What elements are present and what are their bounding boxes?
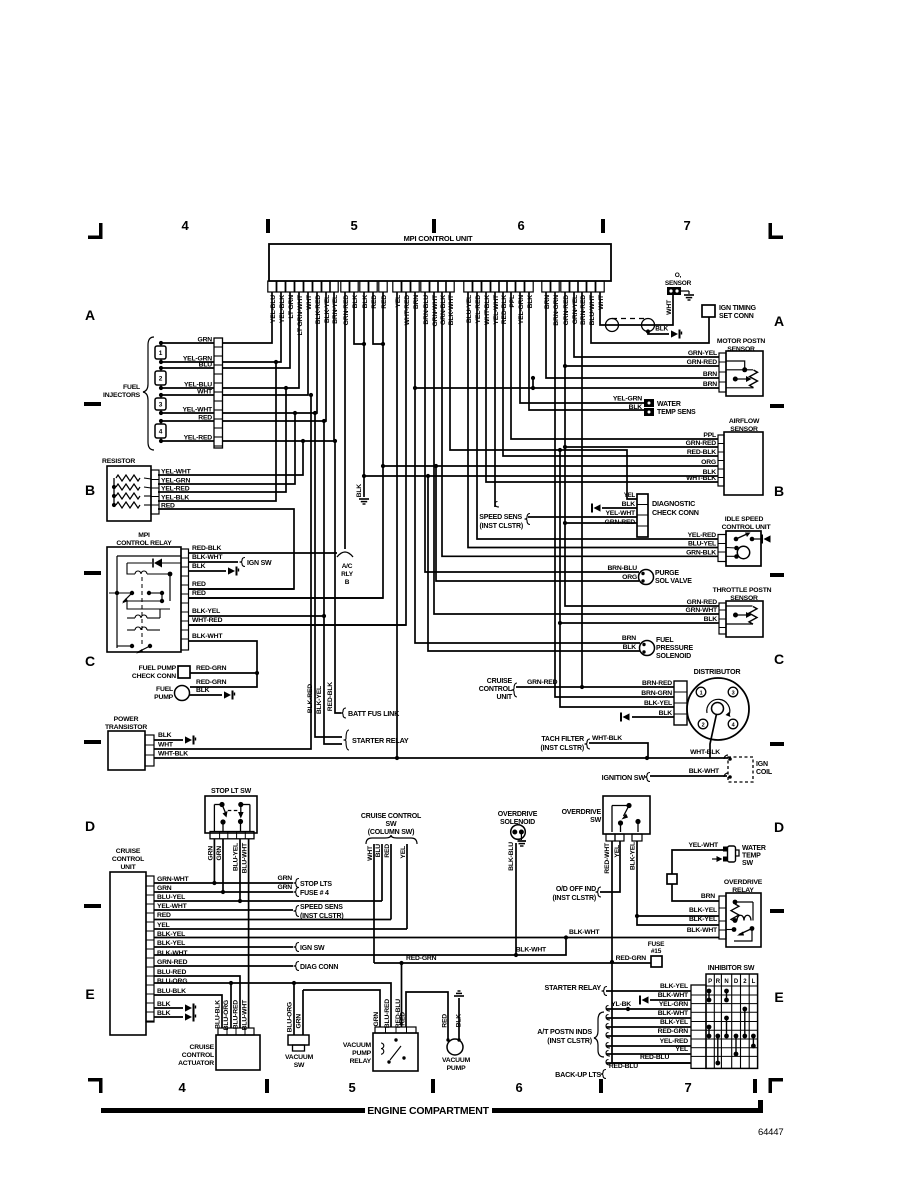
svg-text:GRN-RED: GRN-RED	[527, 679, 558, 686]
svg-text:MPI CONTROL UNIT: MPI CONTROL UNIT	[404, 234, 473, 243]
wire BLU-ORG vacuum switch	[287, 983, 295, 1035]
cruise control unit box	[110, 848, 146, 1035]
svg-text:BLK: BLK	[196, 687, 210, 694]
svg-text:RED: RED	[381, 295, 388, 309]
wire BLK power transistor	[154, 732, 196, 745]
svg-text:B: B	[85, 482, 95, 498]
resistor connector strip	[151, 470, 159, 514]
svg-text:BLK-WHT: BLK-WHT	[689, 768, 720, 775]
svg-text:RLY: RLY	[341, 571, 354, 578]
idle speed control unit wire labels	[686, 532, 716, 556]
svg-text:BLK: BLK	[623, 644, 637, 651]
idle speed control unit connector strip	[718, 535, 726, 562]
stop light switch pin stubs	[210, 832, 254, 839]
svg-text:A: A	[85, 307, 95, 323]
svg-text:PPL: PPL	[509, 295, 516, 308]
fuse water temp circuit	[667, 874, 677, 884]
svg-text:(INST CLSTR): (INST CLSTR)	[541, 745, 584, 752]
svg-text:MPI: MPI	[138, 532, 150, 539]
svg-text:BRN: BRN	[703, 381, 717, 388]
svg-text:INJECTORS: INJECTORS	[103, 392, 141, 399]
svg-text:VACUUM: VACUUM	[343, 1042, 372, 1049]
connector IGN TIMING SET CONN	[702, 305, 757, 320]
ruler tick top	[601, 219, 605, 233]
wire pin9 GRN-RED to A/C relay	[344, 292, 346, 549]
svg-text:SENSOR: SENSOR	[730, 595, 758, 602]
zone letter C left	[85, 653, 95, 669]
svg-text:VACUUM: VACUUM	[442, 1057, 471, 1064]
svg-text:GRN-WHT: GRN-WHT	[686, 607, 718, 614]
wire BLK-YEL drop to distributor	[558, 448, 674, 707]
svg-text:BLK: BLK	[157, 1001, 171, 1008]
svg-text:DISTRIBUTOR: DISTRIBUTOR	[694, 667, 742, 676]
svg-text:BLK: BLK	[362, 295, 369, 309]
svg-text:YEL: YEL	[614, 845, 621, 858]
ground vacuum pump	[454, 991, 464, 996]
svg-text:BLK-WHT: BLK-WHT	[448, 294, 455, 325]
svg-text:WHT: WHT	[598, 294, 605, 310]
svg-text:YEL-WHT: YEL-WHT	[605, 510, 636, 517]
svg-text:BRN-BLU: BRN-BLU	[607, 565, 637, 572]
wire RED resistor feed to relay	[158, 509, 294, 589]
svg-text:GRN: GRN	[277, 884, 292, 891]
svg-text:WHT-BLK: WHT-BLK	[158, 751, 188, 758]
wire BLK-WHT inhibitor row	[650, 992, 691, 1000]
svg-text:BLK: BLK	[158, 732, 172, 739]
svg-text:BLU-BLK: BLU-BLK	[215, 1000, 222, 1029]
svg-text:GRN: GRN	[157, 885, 172, 892]
svg-text:BLK: BLK	[456, 1014, 463, 1028]
wire BLU column switch	[375, 844, 382, 901]
distributor wire labels	[641, 680, 672, 717]
svg-text:BLK: BLK	[622, 501, 636, 508]
wire pin32 GRN-YEL to motor position sensor	[574, 292, 719, 357]
svg-text:LT GRN: LT GRN	[288, 295, 295, 319]
svg-text:YEL: YEL	[400, 846, 407, 859]
wire YEL diagnostic	[624, 493, 636, 499]
ruler number 5 bottom	[348, 1080, 355, 1095]
zone letter E right	[774, 989, 783, 1005]
svg-text:RED-WHT: RED-WHT	[604, 842, 611, 874]
fuel injector 4	[155, 419, 166, 443]
wire YEL-RED drop to resistor	[158, 386, 288, 492]
svg-text:YEL-RED: YEL-RED	[184, 435, 213, 442]
svg-text:STARTER RELAY: STARTER RELAY	[352, 736, 409, 745]
svg-text:BRN-GRN: BRN-GRN	[553, 295, 560, 326]
wire pin11 BLK to ground	[362, 292, 366, 497]
ruler tick bottom	[753, 1079, 757, 1093]
wires to A/T position indicators	[606, 1010, 691, 1056]
svg-text:YEL-BLU: YEL-BLU	[270, 295, 277, 323]
wire YEL-BLK drop to resistor	[158, 360, 278, 501]
power transistor box	[105, 716, 147, 770]
svg-text:PPL: PPL	[703, 432, 716, 439]
svg-text:YEL-RED: YEL-RED	[688, 532, 717, 539]
svg-text:RED-BLU: RED-BLU	[640, 1054, 669, 1061]
wire pin19 GRN-BLK to idle speed unit	[442, 292, 718, 556]
svg-text:ORG: ORG	[622, 574, 637, 581]
relay internals	[109, 556, 181, 654]
svg-text:SPEED SENS: SPEED SENS	[479, 514, 522, 521]
svg-text:WHT: WHT	[666, 299, 673, 315]
wire YEL-GRN drop to resistor	[158, 411, 297, 484]
svg-text:BLK-WHT: BLK-WHT	[192, 554, 223, 561]
svg-text:YEL-WHT: YEL-WHT	[688, 842, 719, 849]
wire RED-BLU backup lights row	[606, 1054, 691, 1070]
svg-text:STOP LT SW: STOP LT SW	[211, 788, 252, 795]
airflow sensor connector strip	[718, 435, 724, 486]
ruler number 5 top	[350, 218, 357, 233]
svg-text:BLK-YEL: BLK-YEL	[660, 983, 688, 990]
wire BRN row to motor position sensor	[415, 387, 719, 389]
svg-text:GRN-WHT: GRN-WHT	[157, 876, 189, 883]
motor position sensor internals	[727, 361, 758, 388]
svg-text:GRN-RED: GRN-RED	[686, 440, 717, 447]
wire pin18 GRN-WHT to throttle sensor	[434, 292, 719, 614]
wire BLK-WHT cruise long row	[154, 929, 600, 955]
title bar ENGINE COMPARTMENT	[101, 1100, 763, 1117]
svg-text:BLK: BLK	[629, 404, 643, 411]
svg-text:GRN-RED: GRN-RED	[687, 359, 718, 366]
motor position sensor wire labels	[687, 350, 718, 388]
svg-text:BLU-ORG: BLU-ORG	[157, 978, 187, 985]
wire BLU-BLK cruise row	[154, 995, 222, 1028]
wire BLU-ORG cruise row	[154, 981, 391, 1027]
cruise control actuator box	[178, 1035, 260, 1070]
wire pin26 PPL to airflow sensor	[511, 292, 718, 439]
svg-text:PUMP: PUMP	[447, 1065, 467, 1072]
svg-text:(INST CLSTR): (INST CLSTR)	[480, 523, 523, 530]
svg-text:BLK-WHT: BLK-WHT	[658, 1010, 689, 1017]
svg-text:2: 2	[702, 723, 705, 729]
wire RED-BLK relay to A/C relay	[188, 545, 337, 553]
wire BLK-YEL relay row	[188, 608, 326, 618]
svg-text:SW: SW	[294, 1062, 305, 1069]
svg-text:3: 3	[159, 402, 163, 409]
injector harness connector strip	[214, 338, 223, 448]
stop light switch box	[205, 788, 257, 833]
ruler number 6 bottom	[515, 1080, 522, 1095]
injector lead wire labels	[182, 337, 213, 442]
wire RED-GRN check conn	[190, 665, 257, 673]
svg-text:O/D OFF IND: O/D OFF IND	[556, 886, 596, 893]
border corner mark top-right	[769, 223, 784, 239]
svg-text:BLK: BLK	[659, 710, 673, 717]
svg-text:BLK-WHT: BLK-WHT	[157, 950, 188, 957]
wire GRN vacuum pump relay	[303, 990, 380, 1027]
svg-text:BLK-BLU: BLK-BLU	[508, 842, 515, 871]
label BATT FUS LINK	[341, 708, 401, 718]
wire pin6 BLK-RED to injector connector	[222, 292, 317, 413]
throttle position sensor box	[713, 587, 772, 637]
svg-text:WHT-BLK: WHT-BLK	[484, 295, 491, 325]
wire pin12 RED jog	[373, 292, 383, 344]
motor position sensor connector strip	[719, 353, 726, 392]
svg-text:BLK-WHT: BLK-WHT	[687, 927, 718, 934]
power transistor connector strip	[145, 735, 154, 766]
distributor connector strip	[674, 681, 687, 725]
wire pin5 WHT to injector connector	[222, 292, 308, 395]
svg-text:TACH FILTER: TACH FILTER	[541, 736, 584, 743]
wire BLU-YEL stop light	[233, 839, 243, 903]
label INHIBITOR SW	[708, 965, 755, 972]
svg-text:RED: RED	[371, 295, 378, 309]
svg-text:BRN-RED: BRN-RED	[580, 295, 587, 325]
svg-text:2: 2	[159, 376, 163, 383]
label IGNITION SW	[602, 773, 650, 783]
svg-text:GRN-YEL: GRN-YEL	[688, 350, 717, 357]
svg-text:WHT-BLK: WHT-BLK	[686, 475, 716, 482]
svg-text:WATER: WATER	[742, 845, 766, 852]
svg-text:RED: RED	[161, 503, 175, 510]
svg-text:BLU: BLU	[375, 844, 382, 858]
svg-text:BRN: BRN	[701, 893, 715, 900]
svg-text:BLU: BLU	[199, 362, 213, 369]
wire RED-BLK deep drop to batt fus link	[327, 439, 341, 713]
zone tick dash right	[770, 909, 784, 913]
fuel injector 1	[155, 341, 166, 364]
svg-text:STOP LTS: STOP LTS	[300, 881, 332, 888]
wire BLK-YEL overdrive relay row	[637, 915, 719, 917]
wire pin20 BLK-WHT to diagnostic connector	[450, 292, 637, 499]
svg-text:BLK-YEL: BLK-YEL	[689, 907, 717, 914]
zone letter A right	[774, 313, 784, 329]
throttle position sensor internals	[727, 606, 758, 624]
cruise control unit connector strip	[146, 876, 154, 1022]
svg-text:WHT: WHT	[367, 845, 374, 861]
water temp sensor labels	[613, 396, 642, 412]
svg-text:BLU-YEL: BLU-YEL	[233, 843, 240, 871]
svg-text:DIAG CONN: DIAG CONN	[300, 964, 338, 971]
label SPEED SENS INST CLSTR centre	[479, 514, 530, 531]
svg-text:N: N	[724, 979, 728, 985]
resistor elements	[112, 475, 140, 508]
distributor rotor lead	[710, 714, 717, 758]
wire RED relay row	[188, 581, 294, 589]
O2 sensor	[665, 272, 692, 315]
svg-text:YEL-WHT: YEL-WHT	[157, 903, 188, 910]
vacuum switch	[285, 1035, 314, 1069]
wire BLK relay to connector	[188, 563, 239, 576]
A/T position indicator brace	[537, 1012, 604, 1057]
ground BLK centre	[356, 484, 369, 504]
wire GRN-RED row to motor position sensor	[565, 365, 719, 367]
svg-text:YEL-RED: YEL-RED	[475, 295, 482, 324]
wire ORG purge	[434, 464, 639, 581]
svg-text:64447: 64447	[758, 1127, 783, 1138]
svg-text:(INST CLSTR): (INST CLSTR)	[547, 1036, 593, 1045]
fuel injector 3	[155, 393, 166, 415]
svg-text:BLK-WHT: BLK-WHT	[569, 929, 600, 936]
wire GRN-RED diagnostic	[605, 519, 636, 526]
wire BLK-RED deep drop to starter relay	[307, 411, 342, 737]
border corner mark top-left	[88, 223, 103, 239]
throttle position sensor wire labels	[686, 599, 718, 623]
svg-text:SOL VALVE: SOL VALVE	[655, 578, 692, 585]
wire BLK-WHT relay to fuel pump check conn	[188, 633, 259, 687]
svg-text:RED-BLU: RED-BLU	[609, 1063, 638, 1070]
overdrive relay internals	[726, 900, 754, 941]
wire YEL-WHT to speed sens	[154, 904, 343, 920]
wire pin33 BRN-RED to distributor	[580, 292, 674, 689]
wire BLK cruise 2	[154, 1013, 196, 1022]
svg-text:DIAGNOSTIC: DIAGNOSTIC	[652, 499, 695, 508]
ruler tick bottom	[431, 1079, 435, 1093]
svg-text:GRN-RED: GRN-RED	[157, 959, 188, 966]
overdrive relay box	[724, 879, 763, 947]
svg-text:GRN: GRN	[373, 1012, 380, 1027]
ignition coil	[724, 755, 773, 782]
fuel pump	[154, 686, 189, 702]
relay box MPI CONTROL RELAY	[107, 532, 181, 652]
wire BLU-YEL cruise row	[154, 900, 382, 902]
svg-text:RED: RED	[442, 1014, 449, 1028]
svg-text:4: 4	[181, 218, 189, 233]
svg-text:BLU-ORG: BLU-ORG	[287, 1002, 294, 1032]
svg-text:WATER: WATER	[657, 401, 681, 408]
idle speed control unit box	[722, 516, 772, 566]
svg-text:YEL-WHT: YEL-WHT	[161, 469, 192, 476]
svg-text:IGN SW: IGN SW	[300, 945, 325, 952]
wire pin29 BRN to motor position sensor	[546, 292, 719, 378]
svg-text:BLK-YEL: BLK-YEL	[157, 940, 185, 947]
svg-text:UNIT: UNIT	[496, 694, 512, 701]
svg-text:BRN-YEL: BRN-YEL	[332, 295, 339, 324]
svg-text:E: E	[85, 986, 94, 1002]
wire pin10 BLK jog	[354, 292, 364, 344]
wire BLK fuel pump	[189, 687, 235, 700]
wire YEL column switch	[400, 844, 407, 929]
connector BLK distributor	[621, 713, 630, 722]
wire pin17 BRN-BLU to purge solenoid	[425, 292, 639, 572]
purge solenoid valve	[639, 570, 693, 586]
svg-text:FUEL: FUEL	[656, 637, 674, 644]
airflow sensor box	[724, 418, 763, 495]
zone letter B left	[85, 482, 95, 498]
zone tick dash right	[770, 404, 784, 408]
resistor internal links	[144, 478, 151, 505]
label STARTER RELAY	[344, 730, 409, 750]
svg-text:BLU-WHT: BLU-WHT	[589, 294, 596, 325]
wire GRN-RED row to airflow sensor	[565, 446, 718, 448]
svg-text:RED-BLK: RED-BLK	[192, 545, 221, 552]
svg-text:B: B	[774, 483, 784, 499]
resistor pack box	[102, 458, 151, 521]
svg-text:BLK: BLK	[655, 326, 668, 333]
overdrive relay wire labels	[687, 907, 718, 934]
wire WHT-BLK ign coil label	[690, 749, 720, 756]
svg-text:BLU-RED: BLU-RED	[157, 969, 186, 976]
svg-text:BRN-BLU: BRN-BLU	[423, 295, 430, 325]
ruler tick top	[266, 219, 270, 233]
wire BLK throttle	[558, 621, 719, 625]
label A/C RLY B	[341, 563, 354, 586]
wire GRN stop light 1	[208, 839, 215, 883]
fuse 15	[648, 941, 665, 967]
svg-text:YEL-GRN: YEL-GRN	[613, 396, 642, 403]
svg-text:BLK-WHT: BLK-WHT	[516, 947, 547, 954]
svg-text:BRN: BRN	[413, 295, 420, 309]
svg-text:SOLENOID: SOLENOID	[656, 653, 691, 660]
wire RED-GRN long row	[374, 955, 651, 965]
wire ORG row to airflow sensor	[383, 465, 718, 467]
wire WHT column switch	[367, 844, 374, 963]
svg-text:IGN: IGN	[756, 761, 768, 768]
svg-text:BLK-YEL: BLK-YEL	[689, 916, 717, 923]
svg-text:RED-GRN: RED-GRN	[406, 955, 437, 962]
ruler tick top	[432, 219, 436, 233]
svg-text:GRN-RED: GRN-RED	[687, 599, 718, 606]
svg-text:GRN-RED: GRN-RED	[343, 295, 350, 326]
svg-text:STARTER RELAY: STARTER RELAY	[544, 983, 601, 992]
svg-text:OVERDRIVE: OVERDRIVE	[498, 811, 538, 818]
label BACK-UP LTS	[555, 1070, 606, 1080]
purge solenoid labels	[607, 565, 637, 581]
svg-text:YEL-RED: YEL-RED	[660, 1038, 689, 1045]
svg-text:(INST CLSTR): (INST CLSTR)	[553, 895, 596, 902]
svg-text:FUEL: FUEL	[123, 384, 140, 391]
svg-text:B: B	[345, 579, 350, 586]
wire WHT-BLK power transistor long row	[154, 751, 728, 761]
svg-text:7: 7	[683, 218, 690, 233]
svg-text:BLU-RED: BLU-RED	[233, 1000, 240, 1029]
svg-text:LT GRN-WHT: LT GRN-WHT	[297, 294, 304, 336]
svg-text:SET CONN: SET CONN	[719, 313, 754, 320]
svg-text:BLU-RED: BLU-RED	[384, 999, 391, 1028]
svg-text:BRN-RED: BRN-RED	[642, 680, 672, 687]
distributor	[687, 667, 749, 740]
wire pin2 YEL-BLK to injector connector	[222, 292, 281, 362]
wire RED cruise row	[154, 919, 391, 921]
ruler number 6 top	[517, 218, 524, 233]
zone letter D right	[774, 819, 784, 835]
inhibitor switch contacts	[707, 989, 756, 1066]
diagnostic connector strip	[637, 494, 699, 537]
water temp switch	[712, 845, 766, 867]
svg-text:BACK-UP LTS: BACK-UP LTS	[555, 1070, 601, 1079]
svg-text:RED-BLK: RED-BLK	[687, 449, 716, 456]
svg-text:WHT-BLK: WHT-BLK	[592, 735, 622, 742]
zone tick dash left	[84, 571, 101, 575]
svg-text:4: 4	[159, 429, 163, 436]
svg-text:CHECK CONN: CHECK CONN	[652, 508, 699, 517]
svg-text:CHECK CONN: CHECK CONN	[132, 673, 176, 680]
svg-text:ACTUATOR: ACTUATOR	[178, 1060, 214, 1067]
svg-text:RED-BLK: RED-BLK	[327, 682, 334, 711]
wire YEL overdrive switch	[600, 841, 621, 892]
wire GRN stop light 2	[216, 839, 223, 892]
wire BLU-RED cruise row	[154, 976, 240, 1028]
svg-text:CONTROL: CONTROL	[479, 686, 513, 693]
node A/C relay contact	[337, 552, 353, 557]
wire BLK-YEL deep drop to starter relay	[316, 419, 342, 744]
wire BLK from harness	[646, 326, 669, 335]
svg-text:BLK: BLK	[356, 484, 363, 498]
svg-text:WHT: WHT	[158, 742, 174, 749]
svg-text:YEL-WHT: YEL-WHT	[182, 407, 213, 414]
svg-text:YEL: YEL	[675, 1046, 688, 1053]
wire pin30 BRN-GRN to distributor	[555, 292, 674, 697]
wire YEL-GRN inhibitor row	[606, 1001, 691, 1011]
svg-text:BLK-WHT: BLK-WHT	[658, 992, 689, 999]
svg-text:CRUISE: CRUISE	[487, 678, 513, 685]
overdrive relay connector strip	[719, 896, 726, 939]
svg-text:PURGE: PURGE	[655, 570, 679, 577]
svg-text:OVERDRIVE: OVERDRIVE	[562, 809, 602, 816]
label O/D OFF IND	[553, 886, 601, 902]
wire BRN to overdrive relay	[672, 884, 719, 901]
svg-text:BRN: BRN	[703, 371, 717, 378]
